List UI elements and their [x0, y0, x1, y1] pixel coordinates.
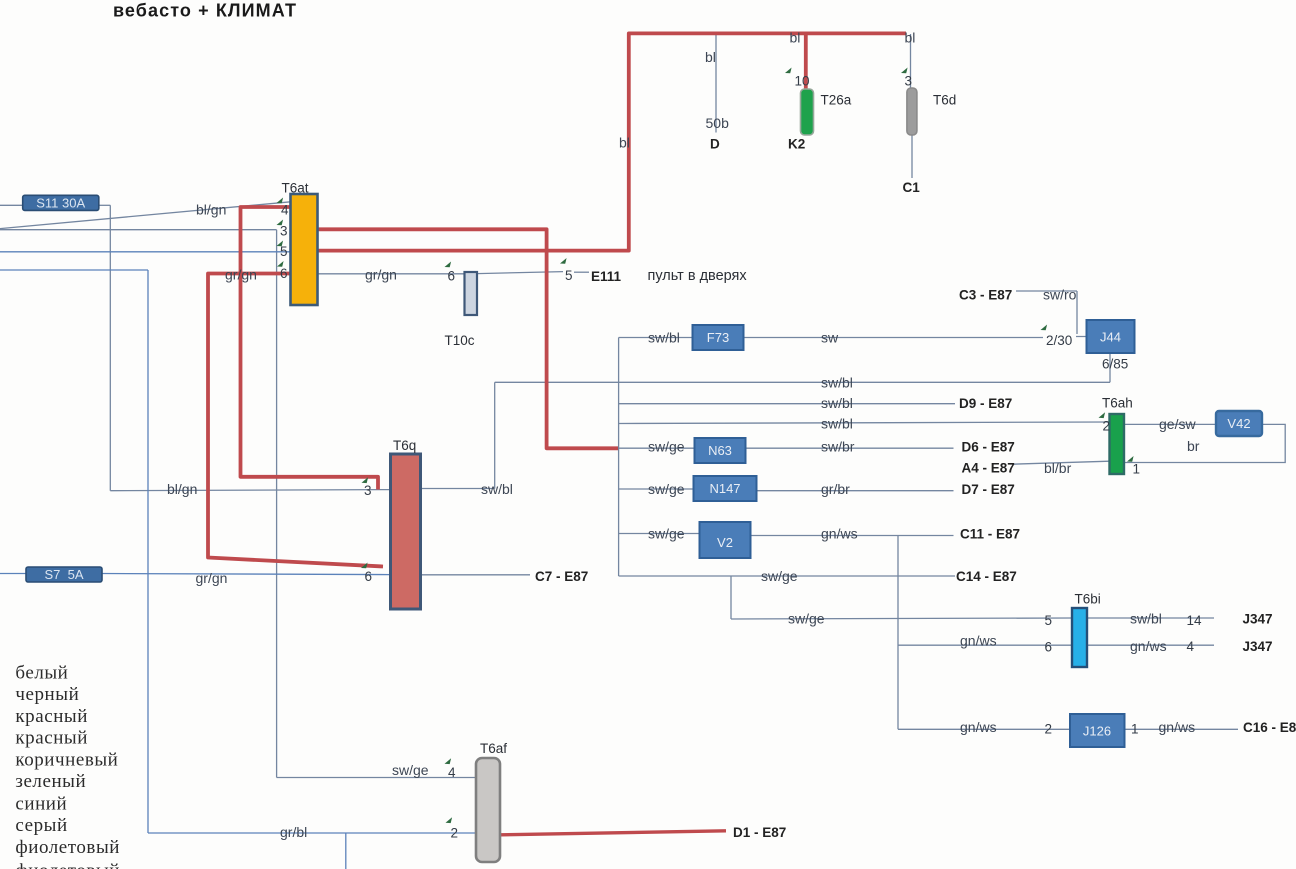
svg-text:sw/bl: sw/bl	[821, 416, 853, 432]
wire S7 row gr/gn to T6q pin 6	[0, 574, 391, 575]
svg-text:T10c: T10c	[445, 333, 475, 348]
pin marker T6at 4	[277, 198, 284, 204]
wire row 270 to corner x148	[0, 269, 148, 271]
svg-text:bl/br: bl/br	[1044, 460, 1072, 476]
pin marker T10c 6	[445, 262, 452, 268]
svg-text:вебасто + КЛИМАТ: вебасто + КЛИМАТ	[113, 1, 297, 21]
wire sw/ge row to T6bi pin 5	[731, 618, 1072, 619]
wire row C14-E87	[619, 575, 955, 577]
wire vertical from S11 down	[109, 205, 111, 490]
svg-text:S7 5A: S7 5A	[44, 567, 83, 582]
pin marker T6at 3	[277, 220, 284, 226]
svg-text:T6at: T6at	[282, 181, 309, 196]
svg-text:gr/bl: gr/bl	[280, 824, 307, 840]
svg-text:sw/ge: sw/ge	[761, 568, 798, 584]
wire gr/bl row into T6af pin 2	[148, 832, 476, 834]
svg-text:6: 6	[280, 266, 288, 281]
svg-text:sw/bl: sw/bl	[821, 395, 853, 411]
svg-text:sw/ro: sw/ro	[1043, 287, 1077, 303]
svg-text:1: 1	[1131, 722, 1139, 737]
svg-text:gn/ws: gn/ws	[821, 526, 858, 542]
svg-text:C3 - E87: C3 - E87	[959, 288, 1012, 303]
svg-text:1: 1	[1133, 462, 1141, 477]
wire bl/gn row to T6q pin 3	[110, 490, 390, 491]
wire vertical x898 gn/ws trunk	[897, 536, 899, 730]
svg-text:3: 3	[905, 73, 913, 88]
wire bl vertical T6d to red bus	[910, 34, 912, 88]
svg-text:6/85: 6/85	[1102, 357, 1128, 372]
fuse S11 30A	[23, 195, 99, 210]
wire trunk vertical x618	[618, 338, 620, 577]
svg-text:S11 30A: S11 30A	[36, 196, 85, 211]
wire C3-E87 sw/ro row	[1016, 290, 1077, 292]
relay J126	[1070, 714, 1125, 747]
svg-text:T6d: T6d	[933, 93, 956, 108]
svg-text:gr/gn: gr/gn	[225, 267, 257, 283]
connector T6af	[476, 758, 500, 862]
pin marker T6ah 1	[1127, 456, 1134, 462]
relay N147	[694, 476, 757, 501]
svg-text:gn/ws: gn/ws	[1130, 638, 1167, 654]
svg-text:фиолетовый: фиолетовый	[15, 861, 120, 869]
svg-text:bl: bl	[790, 30, 801, 46]
wire row to corner at x276	[0, 229, 277, 231]
wire S11 row left	[0, 204, 23, 206]
svg-text:D6 - E87: D6 - E87	[962, 440, 1015, 455]
svg-text:красный: красный	[15, 727, 88, 748]
connector T6d	[907, 88, 917, 135]
pin marker T6ah 2	[1099, 412, 1106, 418]
svg-text:C16 - E87: C16 - E87	[1243, 720, 1296, 735]
connector T26a	[801, 89, 814, 135]
wire red D1-E87 from T6af pin 2	[501, 831, 727, 835]
svg-text:C14 - E87: C14 - E87	[956, 569, 1017, 584]
svg-text:sw/br: sw/br	[821, 439, 855, 455]
relay N63	[695, 438, 746, 463]
relay V42	[1216, 411, 1262, 436]
wire sw/ge row to N147	[619, 488, 694, 490]
svg-text:K2: K2	[788, 137, 805, 152]
wire gn/ws row to J126 pin 2	[898, 728, 1070, 730]
pin marker T6at 6	[277, 261, 284, 267]
svg-text:синий: синий	[15, 793, 67, 814]
wire bl 50b vertical D	[715, 34, 717, 133]
svg-text:2: 2	[451, 826, 459, 841]
wire T10c to E111 pin 5	[477, 272, 563, 274]
svg-text:V2: V2	[717, 535, 733, 550]
svg-text:6: 6	[365, 569, 373, 584]
svg-text:белый: белый	[15, 663, 68, 684]
svg-text:bl: bl	[705, 49, 716, 65]
wire diagonal bl/gn to T6at pin 4	[0, 202, 291, 229]
svg-text:J347: J347	[1243, 612, 1273, 627]
wire sw/bl row to T6ah pin 2	[619, 422, 1110, 424]
wire gr/gn row T6at pin6 to T10c	[318, 273, 465, 275]
pin marker T6af 2	[446, 817, 453, 823]
wire blue row into T6at pin 5	[0, 251, 291, 253]
wire red T6at pin4 left corner down to T6q pin 3	[241, 207, 379, 490]
svg-text:зеленый: зеленый	[15, 771, 86, 792]
svg-text:6: 6	[448, 269, 456, 284]
wire gn/ws row V2 to C11-E87	[751, 535, 954, 537]
wire J126 pin 1 out gn/ws to C16	[1125, 728, 1239, 730]
svg-text:4: 4	[281, 203, 289, 218]
svg-text:2/30: 2/30	[1046, 333, 1072, 348]
wire gr/br row N147 to D7-E87	[757, 490, 954, 492]
svg-text:2: 2	[1045, 722, 1053, 737]
pin marker T6d 3	[901, 68, 908, 74]
wire T6bi pin 5 out sw/bl 14	[1087, 617, 1214, 619]
svg-text:14: 14	[1187, 613, 1203, 628]
wire sw/bl row to D9-E87	[619, 403, 955, 405]
svg-text:sw/ge: sw/ge	[392, 762, 429, 778]
svg-text:D9 - E87: D9 - E87	[959, 396, 1012, 411]
svg-text:J44: J44	[1100, 330, 1121, 345]
svg-text:D7 - E87: D7 - E87	[962, 482, 1015, 497]
svg-text:C1: C1	[903, 180, 921, 195]
wire sw/br row N63 to D6-E87	[746, 447, 954, 449]
wire vertical x494	[494, 382, 496, 488]
pin marker E111 5	[560, 258, 567, 264]
svg-text:50b: 50b	[706, 115, 730, 131]
svg-text:T6q: T6q	[393, 438, 416, 453]
wire red T6at pin5 right up top bus bl	[318, 33, 907, 250]
svg-text:5: 5	[1045, 613, 1053, 628]
svg-text:J126: J126	[1083, 724, 1111, 739]
svg-text:3: 3	[280, 223, 288, 238]
svg-text:bl: bl	[905, 30, 916, 46]
pin marker T26a 10	[785, 68, 792, 74]
wire gn/ws row to T6bi pin 6	[898, 644, 1072, 646]
wire sw/bl row to F73	[619, 337, 693, 339]
wire red gr/gn T6at pin6 left down slant to T6q pin 6	[208, 274, 383, 567]
svg-text:N147: N147	[709, 481, 740, 496]
wire sw/ge row to N63	[619, 447, 695, 449]
svg-text:ge/sw: ge/sw	[1159, 416, 1196, 432]
connector T6at	[291, 194, 318, 305]
svg-text:черный: черный	[15, 684, 79, 705]
svg-text:bl/gn: bl/gn	[167, 481, 197, 497]
svg-text:F73: F73	[707, 330, 729, 345]
wire sw/bl row 383	[495, 381, 1110, 383]
svg-text:пульт в дверях: пульт в дверях	[648, 268, 748, 284]
wire vertical branch x731	[730, 576, 732, 619]
svg-text:sw/ge: sw/ge	[788, 611, 825, 627]
svg-text:серый: серый	[15, 815, 67, 836]
wire bl/br row A4-E87 to T6ah pin 1	[1012, 461, 1110, 464]
svg-text:D: D	[710, 137, 720, 152]
svg-text:sw/ge: sw/ge	[648, 526, 685, 542]
pin marker J44 2/30	[1041, 325, 1048, 331]
wire sw/bl row T6q pin3 right	[421, 488, 495, 490]
connector T10c	[465, 272, 478, 315]
svg-text:sw/bl: sw/bl	[821, 375, 853, 391]
svg-text:2: 2	[1103, 419, 1111, 434]
wire sw row F73 to 2/30 J44	[744, 337, 1087, 338]
svg-text:sw/ge: sw/ge	[648, 439, 685, 455]
svg-text:sw: sw	[821, 330, 839, 346]
svg-text:3: 3	[364, 483, 372, 498]
wire red T6at pin3 right down to N63 trunk row	[318, 229, 619, 448]
wire stub down to bottom edge	[345, 833, 347, 869]
svg-text:C7 - E87: C7 - E87	[535, 569, 588, 584]
svg-text:sw/ge: sw/ge	[648, 481, 685, 497]
svg-text:sw/bl: sw/bl	[1130, 611, 1162, 627]
svg-text:gr/br: gr/br	[821, 481, 850, 497]
svg-text:4: 4	[448, 765, 456, 780]
svg-text:фиолетовый: фиолетовый	[15, 837, 120, 858]
pin marker T6q 6	[361, 563, 368, 569]
svg-text:коричневый: коричневый	[15, 750, 118, 771]
svg-text:5: 5	[280, 244, 288, 259]
svg-text:V42: V42	[1227, 416, 1250, 431]
svg-text:красный: красный	[15, 706, 88, 727]
svg-text:T6ah: T6ah	[1102, 396, 1133, 411]
pin marker T6af 4	[445, 758, 452, 764]
svg-text:gn/ws: gn/ws	[960, 719, 997, 735]
wire V42 loop right	[1124, 424, 1285, 462]
svg-text:gn/ws: gn/ws	[960, 633, 997, 649]
svg-text:br: br	[1187, 438, 1200, 454]
svg-text:10: 10	[795, 73, 810, 88]
svg-text:J347: J347	[1243, 639, 1273, 654]
wire red branch down to T26a pin 10	[804, 33, 808, 91]
relay F73	[693, 325, 744, 350]
svg-text:gr/gn: gr/gn	[365, 267, 397, 283]
wire J44 pin 6/85 vertical	[1109, 354, 1111, 383]
svg-text:5: 5	[565, 268, 573, 283]
wire T6q pin 6 out to C7-E87	[421, 574, 531, 576]
wire sw/ro vertical into J44 pin 2/30	[1076, 291, 1078, 334]
relay V2	[700, 522, 751, 558]
svg-text:A4 - E87: A4 - E87	[962, 461, 1015, 476]
svg-text:bl: bl	[619, 135, 630, 151]
svg-text:gr/gn: gr/gn	[196, 570, 228, 586]
svg-text:bl/gn: bl/gn	[196, 202, 226, 218]
pin marker T6q 3	[362, 477, 369, 483]
wire T6bi pin 6 out gn/ws 4	[1087, 644, 1214, 646]
svg-text:gn/ws: gn/ws	[1159, 719, 1196, 735]
connector T6ah	[1110, 414, 1125, 474]
svg-text:E111: E111	[591, 269, 622, 284]
svg-text:T6af: T6af	[480, 741, 507, 756]
svg-text:T26a: T26a	[821, 93, 852, 108]
wire sw/ge row into T6af pin 4	[277, 777, 476, 779]
connector T6bi	[1072, 608, 1087, 667]
wire T6d bottom to C1	[911, 136, 913, 179]
relay J44	[1087, 320, 1135, 353]
svg-text:T6bi: T6bi	[1075, 592, 1101, 607]
svg-text:sw/bl: sw/bl	[481, 481, 513, 497]
wire vertical x276 down to T6af pin 4 row	[276, 230, 278, 778]
svg-text:6: 6	[1045, 640, 1053, 655]
svg-text:C11 - E87: C11 - E87	[960, 527, 1020, 542]
wire S11 row right to corner	[99, 204, 111, 206]
wire sw/ge row to V2	[619, 533, 700, 535]
svg-text:D1 - E87: D1 - E87	[733, 825, 786, 840]
svg-text:4: 4	[1187, 639, 1195, 654]
wire vertical x148 down	[147, 270, 149, 833]
svg-text:N63: N63	[708, 443, 732, 458]
wire ge/sw T6ah to V42	[1124, 423, 1216, 425]
fuse S7 5A	[26, 567, 102, 582]
connector T6q	[391, 454, 421, 609]
svg-text:sw/bl: sw/bl	[648, 330, 680, 346]
pin marker T6at 5	[277, 241, 284, 247]
wire link 5 to E111	[574, 271, 589, 273]
